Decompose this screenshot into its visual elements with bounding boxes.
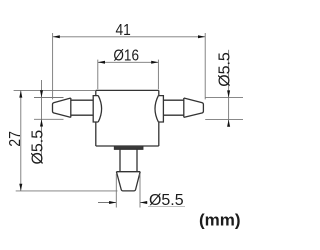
arrowhead Ø5.5 left bottom (outside, pointing up) <box>40 119 43 126</box>
arrowhead Ø5.5 right top (outside, pointing down) <box>227 90 230 97</box>
svg-text:Ø5.5: Ø5.5 <box>30 130 47 165</box>
dim Ø5.5 bottom: right extension line <box>139 174 141 208</box>
svg-text:(mm): (mm) <box>199 210 241 229</box>
arrowhead Ø16 right <box>151 61 158 64</box>
dim Ø5.5 left: top extension line <box>34 97 64 99</box>
dim Ø5.5 bottom: left extension line <box>115 174 117 208</box>
dim Ø5.5 right: bottom extension line <box>205 119 243 121</box>
arrowhead Ø5.5 right bottom (outside, pointing up) <box>227 120 230 127</box>
arrowhead 41 right <box>198 35 205 38</box>
arrowhead Ø16 left <box>98 61 105 64</box>
right port barb cone <box>184 98 204 117</box>
arrowhead 41 left <box>53 35 60 38</box>
dim Ø5.5 right: dimension line <box>228 50 230 127</box>
arrowhead 27 top <box>19 90 22 97</box>
arrowhead Ø5.5 bottom right (outside, pointing left) <box>140 201 147 204</box>
svg-text:27: 27 <box>7 131 24 147</box>
right port collar <box>155 96 163 122</box>
dim Ø16 left extension line <box>97 60 99 90</box>
bottom port barb cone <box>116 172 140 191</box>
left port barb cone <box>53 98 71 117</box>
left port collar <box>93 96 101 122</box>
arrowhead Ø5.5 left top (outside, pointing down) <box>40 90 43 97</box>
dim 27 top extension (body top extended) <box>14 89 96 91</box>
arrowhead Ø5.5 bottom left (outside, pointing right) <box>109 201 116 204</box>
dim 27 line <box>20 90 22 190</box>
svg-text:Ø5.5: Ø5.5 <box>149 192 184 209</box>
left port stem <box>71 100 93 115</box>
dim Ø5.5 left: dimension line <box>41 80 43 164</box>
bottom port stem <box>120 149 137 172</box>
dim 41 right extension line <box>204 33 206 99</box>
dim Ø16 line <box>98 61 159 63</box>
svg-text:41: 41 <box>116 22 131 39</box>
body <box>96 90 159 146</box>
svg-text:Ø16: Ø16 <box>113 48 139 65</box>
dim Ø5.5 bottom: dimension line left tail <box>98 202 116 204</box>
svg-text:Ø5.5: Ø5.5 <box>217 52 234 87</box>
arrowhead 27 bottom <box>19 184 22 191</box>
dim 41 line <box>53 36 206 38</box>
dim Ø5.5 bottom: dimension line right tail <box>140 202 147 204</box>
dim Ø16 right extension line <box>157 60 159 90</box>
right port stem <box>163 100 183 115</box>
dim Ø5.5 left: bottom extension line <box>34 118 64 120</box>
dim 27 bottom extension line <box>16 190 118 192</box>
bottom port collar <box>115 146 143 149</box>
dim Ø5.5 right: top extension line <box>205 97 243 99</box>
dim Ø5.5 bottom: text underline <box>148 206 185 208</box>
dim 41 left extension line <box>52 33 54 99</box>
